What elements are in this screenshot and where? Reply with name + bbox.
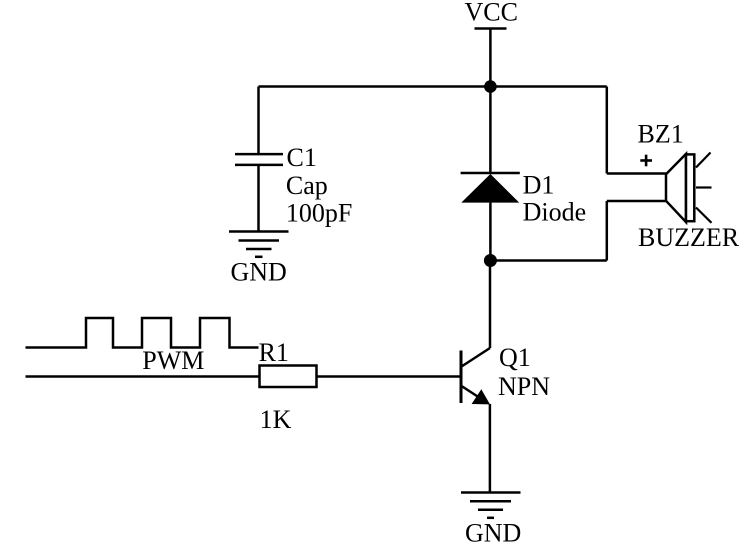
label BZ1 bbox=[638, 120, 740, 253]
node junction at collector net bbox=[484, 254, 497, 267]
wire collector node to right branch bbox=[490, 259, 606, 262]
wire to buzzer plus terminal bbox=[607, 172, 666, 175]
power symbol VCC bbox=[465, 0, 518, 87]
wire PWM input to R1 bbox=[26, 375, 260, 378]
node junction at VCC rail bbox=[484, 80, 497, 93]
plus polarity mark bbox=[640, 155, 652, 167]
label R1 value bbox=[259, 338, 292, 434]
svg-text:Cap: Cap bbox=[286, 171, 328, 200]
transistor Q1 bbox=[461, 348, 490, 404]
svg-text:R1: R1 bbox=[259, 338, 289, 367]
svg-text:D1: D1 bbox=[523, 171, 555, 200]
wire top horizontal net VCC bbox=[259, 85, 607, 88]
label D1 bbox=[523, 171, 587, 227]
resistor R1 bbox=[260, 366, 317, 388]
svg-text:VCC: VCC bbox=[465, 0, 518, 27]
ground GND left bbox=[229, 232, 289, 287]
svg-text:PWM: PWM bbox=[142, 346, 204, 375]
svg-text:C1: C1 bbox=[287, 143, 317, 172]
wire VCC junction down to D1 cathode bbox=[489, 87, 492, 174]
svg-text:BUZZER: BUZZER bbox=[638, 223, 740, 252]
svg-text:BZ1: BZ1 bbox=[638, 120, 684, 149]
wire collector vertical bbox=[489, 261, 492, 349]
wire buzzer minus terminal bbox=[607, 200, 666, 203]
wire emitter to ground bbox=[489, 404, 492, 493]
svg-text:NPN: NPN bbox=[498, 372, 550, 401]
wire C1 to ground bbox=[257, 165, 260, 232]
wire left branch down to C1 bbox=[257, 87, 260, 155]
svg-text:Q1: Q1 bbox=[499, 343, 531, 372]
diode D1 bbox=[461, 173, 520, 203]
svg-text:GND: GND bbox=[231, 258, 287, 287]
label C1 value bbox=[286, 143, 352, 228]
svg-text:100pF: 100pF bbox=[286, 199, 352, 228]
wire base to R1 bbox=[318, 375, 462, 378]
svg-text:1K: 1K bbox=[260, 405, 292, 434]
svg-text:Diode: Diode bbox=[523, 197, 587, 226]
wire right branch vertical from VCC rail bbox=[606, 87, 609, 174]
ground GND bottom bbox=[461, 493, 521, 548]
svg-text:GND: GND bbox=[465, 519, 521, 548]
capacitor C1 bbox=[235, 154, 283, 165]
wire right branch down bbox=[606, 201, 609, 261]
label Q1 bbox=[498, 343, 550, 401]
PWM waveform bbox=[26, 318, 259, 348]
buzzer BZ1 bbox=[666, 153, 712, 223]
wire D1 anode down to collector node bbox=[489, 203, 492, 261]
